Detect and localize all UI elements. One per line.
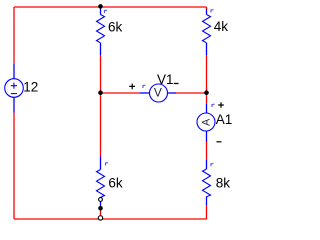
wire bottom-middle branch vertical (node to R4) [100, 93, 102, 157]
svg-text:A1: A1 [216, 112, 233, 127]
polarity + of A1 [218, 102, 224, 108]
svg-text:A: A [200, 118, 212, 126]
wire right vertical between ammeter and 8k [206, 142, 208, 161]
voltmeter V1 leads [140, 92, 150, 94]
pin marker for 6k bottom [106, 163, 109, 166]
wire middle horizontal left of voltmeter [101, 92, 141, 94]
svg-text:V1: V1 [157, 72, 174, 87]
ammeter A1 body [197, 113, 215, 131]
wire top horizontal [14, 6, 207, 8]
resistor R 4k: leads [206, 9, 208, 15]
resistor R 6k bottom: leads [100, 157, 102, 170]
wire left vertical upper [13, 7, 15, 64]
wire middle branch vertical (between R1 and middle node) [100, 55, 102, 93]
svg-text:6k: 6k [108, 175, 123, 190]
open connector circle on bottom wire [98, 216, 102, 220]
pin marker for 8k [211, 164, 214, 167]
svg-text:8k: 8k [216, 175, 231, 190]
open pin circle below 6k bottom [99, 198, 103, 202]
wire left vertical lower [13, 113, 15, 220]
junction dot bottom-middle node [98, 206, 103, 211]
wire middle horizontal right of voltmeter [176, 92, 207, 94]
wire stub between pin circle and junction dot [100, 201, 102, 207]
resistor R 8k: zigzag [203, 169, 211, 197]
wire right vertical below 8k [206, 205, 208, 219]
ammeter A1 leads [206, 104, 208, 113]
pin marker for V1 [143, 85, 146, 88]
wire stub top-right corner [206, 7, 208, 9]
voltage source V 12 body [5, 79, 24, 98]
resistor R 8k: leads [206, 160, 208, 169]
svg-text:V: V [154, 86, 162, 100]
polarity - of A1 [217, 141, 222, 143]
pin marker for 6k top [105, 10, 108, 13]
wire right vertical between 4k and ammeter [206, 55, 208, 104]
voltmeter V1 body [150, 84, 168, 102]
junction dot middle-left node [98, 90, 103, 95]
svg-text:6k: 6k [108, 20, 123, 35]
pin marker for A1 [212, 104, 215, 107]
pin marker for 4k [211, 10, 214, 13]
resistor R 6k top: zigzag [97, 15, 105, 43]
voltage source V 12 leads [13, 64, 15, 79]
resistor R 6k top: leads [100, 7, 102, 15]
junction dot middle-right node [204, 90, 209, 95]
resistor R 4k: zigzag [203, 15, 211, 43]
wire bottom-middle stub (dot to bottom wire) [100, 209, 102, 219]
polarity - of V1 [174, 83, 179, 85]
polarity + of V1 [129, 84, 135, 90]
junction dot top node [98, 4, 103, 9]
wire bottom horizontal [14, 218, 207, 220]
svg-text:12: 12 [23, 80, 38, 95]
svg-text:4k: 4k [214, 19, 229, 34]
resistor R 6k bottom: zigzag [97, 170, 105, 198]
